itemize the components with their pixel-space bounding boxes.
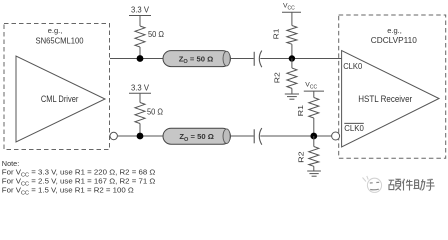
svg-text:HSTL Receiver: HSTL Receiver: [358, 94, 412, 104]
svg-text:R1: R1: [273, 28, 280, 39]
svg-text:CDCLVP110: CDCLVP110: [371, 36, 417, 45]
svg-text:CLK0: CLK0: [344, 123, 364, 133]
svg-text:R1: R1: [297, 105, 305, 117]
svg-text:R2: R2: [297, 151, 305, 163]
svg-text:SN65CML100: SN65CML100: [36, 36, 84, 45]
svg-text:CML Driver: CML Driver: [41, 94, 79, 104]
svg-text:e.g.,: e.g.,: [48, 26, 63, 35]
svg-text:3.3 V: 3.3 V: [131, 83, 150, 92]
svg-text:50 Ω: 50 Ω: [147, 107, 163, 116]
svg-text:3.3 V: 3.3 V: [131, 5, 150, 14]
svg-text:e.g.,: e.g.,: [387, 26, 402, 35]
svg-text:50 Ω: 50 Ω: [148, 30, 164, 39]
svg-text:CLK0: CLK0: [343, 61, 362, 71]
svg-text:R2: R2: [274, 72, 281, 83]
